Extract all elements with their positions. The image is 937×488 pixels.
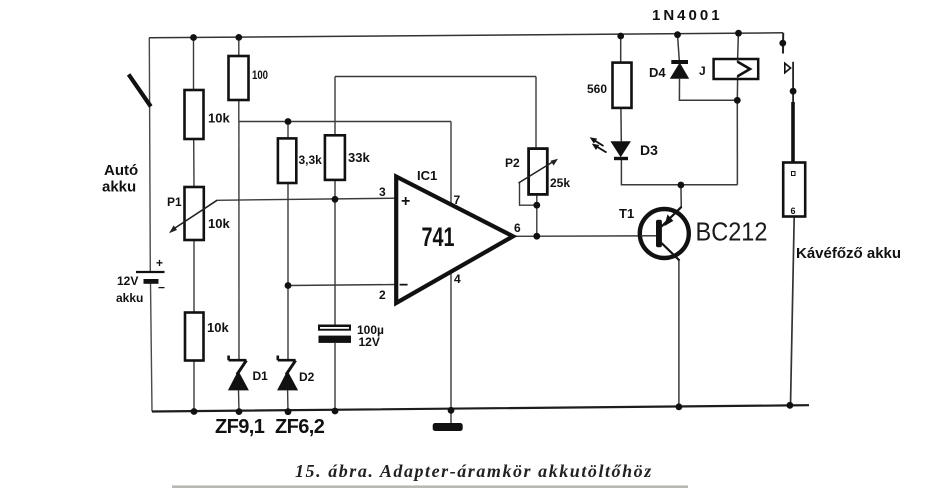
LED D3 emission arrows — [594, 140, 607, 153]
svg-text:10k: 10k — [208, 111, 230, 126]
svg-text:4: 4 — [454, 272, 461, 286]
caption underline (next page text edge) — [172, 485, 688, 488]
svg-text:ZF9,1: ZF9,1 — [215, 416, 265, 438]
capacitor C1 bottom plate — [319, 336, 352, 343]
svg-text:−: − — [158, 281, 165, 295]
svg-text:33k: 33k — [348, 150, 370, 165]
svg-text:25k: 25k — [550, 176, 570, 190]
svg-text:7: 7 — [454, 193, 461, 207]
svg-text:D4: D4 — [649, 65, 666, 80]
svg-text:ZF6,2: ZF6,2 — [275, 416, 325, 438]
resistor 3,3k — [278, 138, 296, 183]
LED D3 — [610, 141, 631, 157]
wire: op-amp output to transistor base — [513, 235, 656, 238]
wire: resistor chain vertical x=193 — [193, 38, 196, 412]
wire: bottom rail — [152, 405, 809, 411]
wire: top supply rail — [149, 33, 783, 38]
svg-text:15. ábra. Adapter-áramkör akku: 15. ábra. Adapter-áramkör akkutöltőhöz — [295, 461, 653, 481]
wire: coffee battery to bottom rail — [791, 217, 795, 406]
svg-text:Kávéfőző akku: Kávéfőző akku — [796, 245, 901, 262]
svg-text:560: 560 — [587, 82, 607, 96]
wire: pin4 / ground stem — [450, 268, 452, 425]
zener diode D2 — [278, 356, 296, 361]
transistor collector lead — [662, 243, 680, 261]
svg-text:12V: 12V — [359, 335, 380, 349]
auto battery symbol — [136, 271, 165, 273]
svg-text:2: 2 — [379, 288, 386, 302]
svg-text:6: 6 — [514, 221, 521, 235]
wire: pin7 vertical x=451 — [450, 122, 452, 206]
svg-text:3,3k: 3,3k — [299, 153, 323, 167]
svg-text:akku: akku — [102, 179, 136, 196]
wire: pin3 input wire — [217, 198, 397, 200]
wire: horizontal bias rail y=121.5 — [239, 121, 451, 123]
zener diode D1 — [229, 356, 247, 361]
wire: left vertical (auto battery branch) — [149, 38, 152, 412]
svg-text:BC212: BC212 — [696, 217, 768, 247]
svg-text:D1: D1 — [253, 369, 269, 383]
wire: 3,3k / D2 vertical x=288 — [287, 122, 289, 412]
P2 wiper arrow — [519, 161, 556, 184]
svg-text:10k: 10k — [208, 216, 230, 231]
wire: transistor emitter vertical — [680, 185, 682, 208]
transistor Q1 circle — [640, 209, 689, 258]
ground symbol — [433, 423, 463, 431]
P1 wiper arrow — [172, 200, 217, 230]
svg-text:T1: T1 — [619, 206, 634, 221]
wire: coffee battery feed thick part — [791, 102, 795, 163]
transistor base bar — [656, 220, 662, 247]
wire: feedback rail y=77.8 — [335, 76, 536, 78]
op-amp U1 741 — [396, 177, 513, 304]
svg-text:+: + — [156, 256, 163, 270]
wire: P2 vertical x=536 — [535, 77, 538, 237]
svg-text:741: 741 — [422, 222, 455, 252]
transistor base wire inside circle — [641, 235, 656, 237]
svg-text:1N4001: 1N4001 — [652, 7, 723, 24]
svg-text:D3: D3 — [640, 142, 658, 158]
resistor 100 — [229, 56, 249, 100]
svg-text:100: 100 — [252, 68, 268, 82]
svg-text:akku: akku — [116, 291, 143, 305]
wire: transistor collector vertical — [678, 260, 680, 407]
resistor 10k (bottom) — [185, 313, 204, 361]
svg-text:D2: D2 — [299, 370, 315, 384]
wire: relay vertical x=737.6 — [737, 33, 738, 185]
coffee battery — [783, 163, 805, 217]
svg-text:3: 3 — [379, 185, 386, 199]
relay coil J — [714, 59, 759, 79]
svg-text:+: + — [401, 193, 410, 210]
wire: coffee battery feed — [792, 62, 794, 103]
diode D4 (1N4001) — [671, 60, 688, 64]
wire: top-right corner down to connector — [782, 33, 784, 54]
wire: P2 wiper hook — [520, 183, 537, 205]
wire: 100-ohm / D1 vertical x=239 — [238, 37, 241, 411]
resistor 33k — [325, 135, 345, 180]
wire: 560 / D3 vertical x=620 — [621, 36, 738, 185]
resistor 10k (top) — [185, 90, 204, 139]
capacitor C1 100u top plate — [318, 325, 351, 331]
svg-text:−: − — [399, 277, 408, 294]
resistor 560 — [613, 63, 632, 108]
svg-text:J: J — [699, 64, 706, 78]
connector arrow (charger output) — [785, 63, 791, 73]
wire: D4 vertical x=678 — [678, 35, 738, 101]
svg-text:IC1: IC1 — [417, 168, 437, 183]
svg-text:10k: 10k — [207, 320, 229, 335]
potentiometer P1 — [185, 187, 204, 240]
potentiometer P2 — [529, 149, 548, 195]
svg-text:P1: P1 — [167, 195, 182, 209]
wire: 33k / capacitor vertical x=335 — [334, 77, 336, 412]
svg-text:P2: P2 — [505, 156, 520, 170]
svg-text:Autó: Autó — [104, 162, 138, 179]
wire: pin2 input wire — [288, 285, 396, 286]
transistor emitter lead with arrow — [662, 207, 682, 227]
svg-text:6: 6 — [791, 206, 796, 216]
switch blade (top-left diagonal) — [129, 74, 151, 106]
svg-text:12V: 12V — [117, 274, 138, 288]
